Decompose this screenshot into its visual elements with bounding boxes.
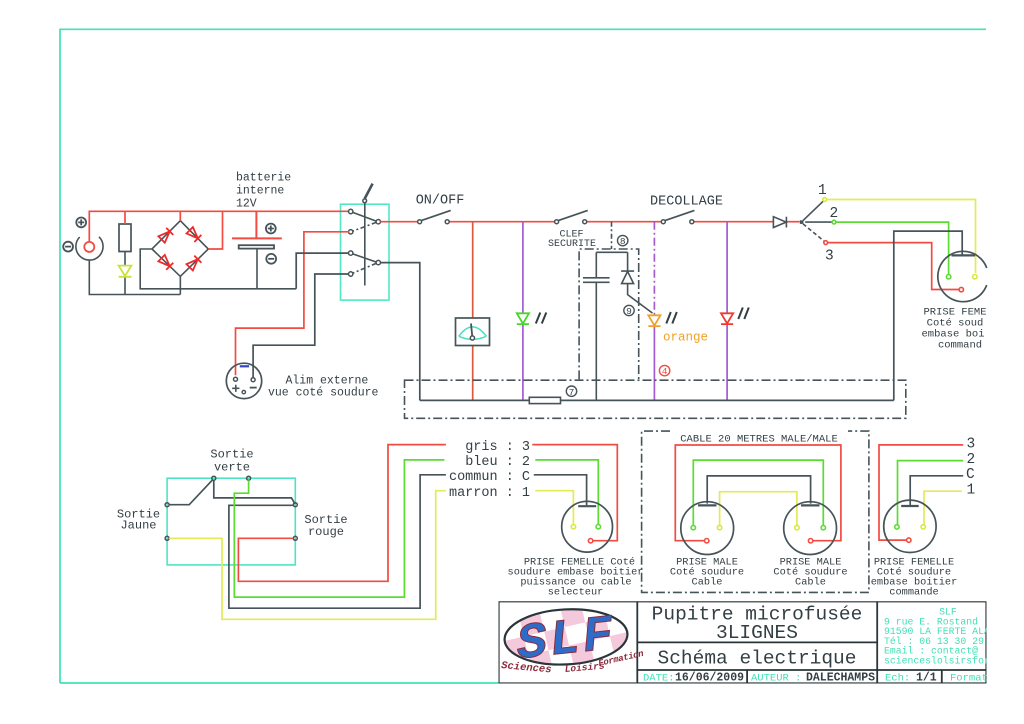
svg-text:bleu : 2: bleu : 2 <box>465 455 530 470</box>
svg-text:2: 2 <box>830 206 839 222</box>
svg-text:3LIGNES: 3LIGNES <box>716 622 798 644</box>
svg-text:4: 4 <box>662 366 668 377</box>
svg-text:CABLE 20 METRES MALE/MALE: CABLE 20 METRES MALE/MALE <box>680 434 838 446</box>
svg-text:interne: interne <box>236 185 284 198</box>
svg-text:C: C <box>966 467 975 483</box>
svg-text:gris : 3: gris : 3 <box>465 440 530 455</box>
svg-text:1: 1 <box>818 183 827 199</box>
svg-text:Jaune: Jaune <box>120 519 156 533</box>
svg-text:1/1: 1/1 <box>916 672 937 685</box>
svg-text:Sortie: Sortie <box>210 448 253 462</box>
svg-text:rouge: rouge <box>308 525 344 539</box>
svg-text:orange: orange <box>663 331 708 345</box>
svg-text:verte: verte <box>214 461 250 475</box>
svg-text:DECOLLAGE: DECOLLAGE <box>650 195 723 210</box>
svg-text:DATE:: DATE: <box>643 673 675 685</box>
svg-text:command: command <box>938 340 982 352</box>
svg-text:12V: 12V <box>236 198 257 211</box>
svg-text:3: 3 <box>825 249 834 265</box>
svg-text:Schéma electrique: Schéma electrique <box>658 648 857 670</box>
svg-text:batterie: batterie <box>236 172 291 185</box>
svg-text:2: 2 <box>967 452 976 468</box>
svg-text:1: 1 <box>967 482 976 498</box>
svg-text:Ech:: Ech: <box>885 673 910 685</box>
svg-text:DALECHAMPS: DALECHAMPS <box>806 672 875 685</box>
svg-text:9: 9 <box>626 306 632 317</box>
svg-text:commande: commande <box>889 587 938 599</box>
svg-text:7: 7 <box>569 387 575 398</box>
svg-text:16/06/2009: 16/06/2009 <box>675 672 744 685</box>
svg-text:ON/OFF: ON/OFF <box>416 194 465 209</box>
svg-text:selecteur: selecteur <box>548 587 604 599</box>
svg-text:3: 3 <box>967 437 976 453</box>
svg-text:8: 8 <box>620 236 626 247</box>
svg-text:AUTEUR :: AUTEUR : <box>751 673 801 685</box>
svg-text:marron : 1: marron : 1 <box>449 486 530 501</box>
svg-text:Cable: Cable <box>795 577 826 589</box>
svg-text:vue coté soudure: vue coté soudure <box>268 387 379 400</box>
svg-text:commun : C: commun : C <box>449 470 530 485</box>
svg-text:Cable: Cable <box>692 577 723 589</box>
